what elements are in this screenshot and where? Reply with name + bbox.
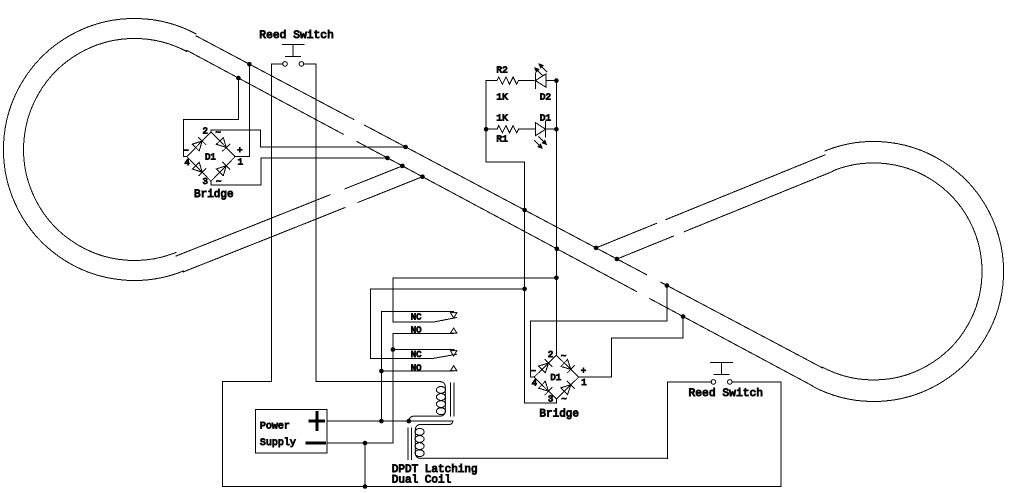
svg-text:Bridge: Bridge [194, 189, 234, 201]
svg-text:−: − [183, 146, 188, 156]
svg-text:NO: NO [411, 363, 422, 373]
svg-text:1K: 1K [496, 91, 508, 102]
svg-text:R1: R1 [496, 134, 508, 145]
svg-text:R2: R2 [496, 64, 508, 75]
svg-text:3: 3 [203, 177, 208, 187]
svg-text:D1: D1 [540, 113, 552, 124]
svg-text:D2: D2 [540, 91, 552, 102]
svg-text:Reed Switch: Reed Switch [689, 388, 764, 400]
svg-text:~: ~ [561, 394, 566, 404]
svg-text:Dual Coil: Dual Coil [392, 475, 451, 487]
svg-text:Power: Power [260, 421, 290, 432]
svg-text:1: 1 [238, 158, 243, 168]
svg-text:~: ~ [216, 128, 221, 138]
svg-text:D1: D1 [550, 373, 561, 383]
svg-text:+: + [237, 146, 242, 156]
svg-text:NC: NC [411, 312, 422, 322]
svg-text:1: 1 [581, 378, 586, 388]
svg-text:Bridge: Bridge [539, 409, 579, 421]
svg-text:4: 4 [532, 379, 537, 389]
svg-text:NO: NO [411, 326, 422, 336]
svg-text:D1: D1 [205, 153, 216, 163]
svg-text:4: 4 [184, 158, 189, 168]
svg-text:2: 2 [203, 126, 208, 136]
svg-text:2: 2 [548, 350, 553, 360]
svg-text:−: − [531, 367, 536, 377]
svg-text:1K: 1K [496, 113, 508, 124]
svg-text:~: ~ [561, 351, 566, 361]
svg-text:NC: NC [411, 350, 422, 360]
svg-text:+: + [581, 367, 586, 377]
svg-text:Supply: Supply [260, 437, 296, 449]
svg-text:Reed Switch: Reed Switch [259, 30, 334, 42]
